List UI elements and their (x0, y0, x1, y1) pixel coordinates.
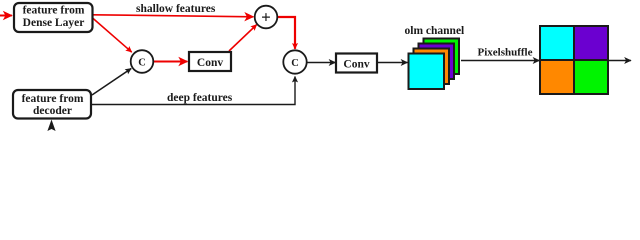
wire: black arrow Conv2 to channel stack (377, 62, 407, 64)
grid cell: top-left cyan (540, 26, 574, 60)
box: Conv1 (189, 52, 231, 71)
wire: black diagonal decoder box to concat C1 (92, 69, 131, 96)
svg-text:deep features: deep features (167, 92, 233, 104)
svg-text:Conv: Conv (197, 57, 223, 69)
wire: red input arrow into Dense Layer box (0, 15, 12, 17)
svg-text:olm channel: olm channel (405, 25, 465, 37)
wire: red diagonal Dense box to concat C1 (92, 18, 132, 53)
box: feature from Dense Layer (14, 3, 93, 32)
svg-text:feature from: feature from (22, 93, 84, 105)
channel stack: orange square (414, 49, 450, 85)
channel stack: green back square (424, 39, 460, 75)
svg-text:shallow features: shallow features (136, 3, 216, 15)
grid cell: bottom-left orange (540, 60, 574, 94)
svg-text:Conv: Conv (343, 58, 369, 70)
grid cell: top-right purple (574, 26, 608, 60)
wire: black output arrow from grid (608, 60, 631, 62)
channel stack: cyan front square (409, 54, 445, 90)
wire: deep features black line from decoder box to concat C2 (92, 77, 295, 105)
channel stack: purple square (419, 44, 455, 80)
svg-text:Pixelshuffle: Pixelshuffle (478, 47, 533, 59)
svg-text:feature from: feature from (23, 5, 85, 17)
box: feature from decoder (13, 90, 91, 119)
node: adder circle plus (255, 6, 278, 29)
wire: black arrow C2 to Conv2 (307, 62, 335, 64)
node: concat circle C1 (131, 50, 154, 73)
svg-text:+: + (261, 8, 271, 27)
svg-text:C: C (138, 57, 146, 68)
box: Conv2 (336, 54, 377, 73)
svg-text:decoder: decoder (33, 105, 72, 117)
wire: shallow features red line from Dense box to adder (93, 15, 253, 17)
wire: red path adder to concat C2 (278, 17, 296, 49)
svg-text:Dense Layer: Dense Layer (23, 17, 85, 29)
svg-text:C: C (291, 58, 299, 69)
wire: black Pixelshuffle arrow from stack to 2x2 grid (461, 60, 539, 62)
wire: red arrow C1 to Conv1 (154, 61, 187, 63)
node: concat circle C2 (283, 50, 306, 73)
wire: black up-arrow into decoder box bottom (47, 120, 55, 132)
grid cell: bottom-right green (574, 60, 608, 94)
wire: red diagonal Conv1 to adder (229, 25, 257, 51)
